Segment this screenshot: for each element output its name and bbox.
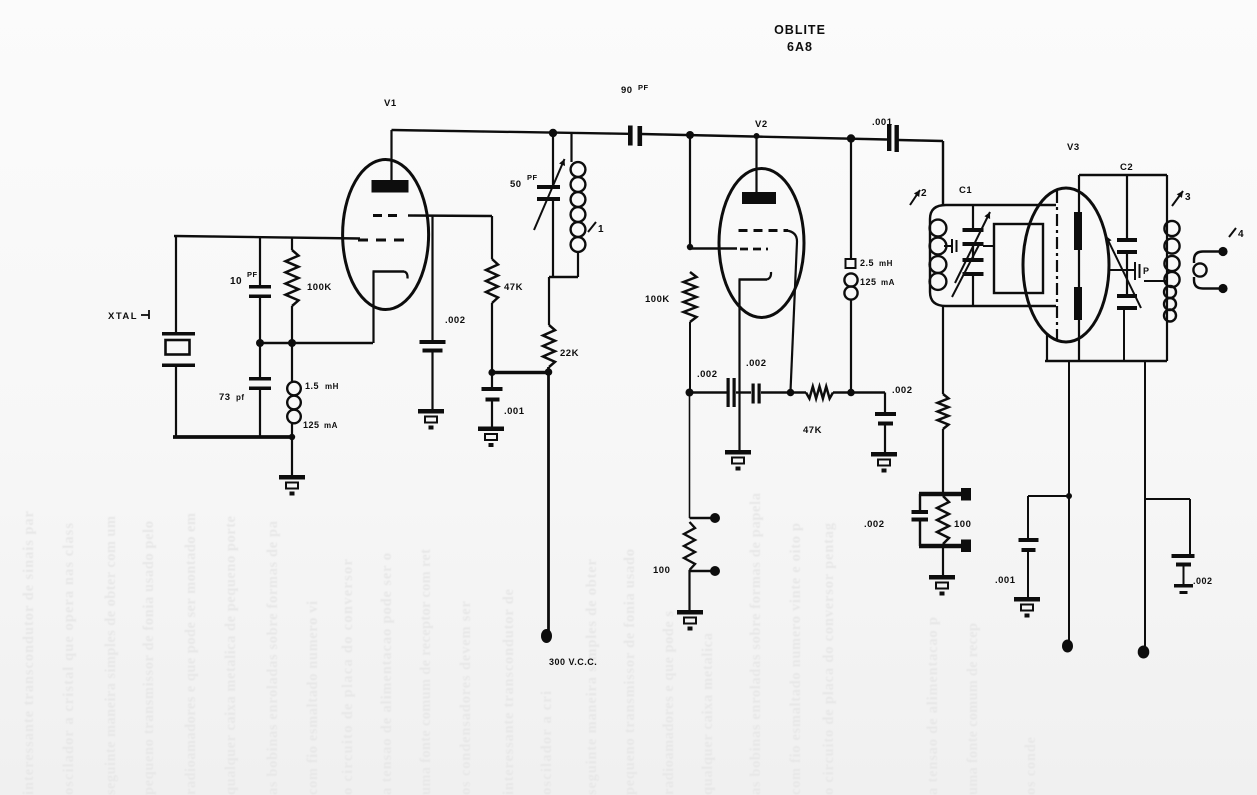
svg-text:radioamadores e que pode s: radioamadores e que pode s [661, 610, 677, 795]
node: junction 10pF/73pF [256, 339, 264, 347]
wire: branch to .001 [1028, 495, 1069, 497]
svg-text:125: 125 [303, 420, 320, 430]
tap lead [690, 570, 712, 573]
svg-text:interessante transcondutor de: interessante transcondutor de sinais par [21, 510, 37, 795]
capacitor .002 plate decoupling [884, 393, 886, 413]
svg-text:mH: mH [879, 259, 893, 268]
node: junction screen return [787, 389, 795, 397]
capacitor .002 output bypass [1172, 554, 1195, 558]
wire: bus continues to V2 / choke / .001 [641, 134, 887, 140]
decoupling network: top bar with terminal [919, 492, 963, 497]
node: junction [1066, 493, 1072, 499]
wire: top-left horizontal from crystal to V1 grid [174, 236, 360, 239]
svg-text:mA: mA [881, 278, 895, 287]
tube V1 envelope [343, 160, 429, 310]
svg-text:V2: V2 [755, 119, 768, 130]
svg-text:300 V.C.C.: 300 V.C.C. [549, 657, 597, 667]
wire [761, 391, 806, 393]
wire: varcap to shield box [983, 245, 994, 247]
capacitor 73 pF [259, 343, 261, 377]
resistor 100K grid leak V1 [291, 238, 293, 250]
wire: tank bottom [549, 276, 578, 278]
svg-text:XTAL: XTAL [108, 311, 138, 322]
capacitor .001 plate coupling [887, 124, 891, 151]
svg-text:.001: .001 [504, 406, 525, 417]
node: junction grid/100K [687, 244, 693, 250]
svg-text:C1: C1 [959, 185, 972, 196]
label L2 arrow [910, 190, 920, 205]
node: bottom wire / ground junction [289, 434, 295, 440]
V1 plate [372, 180, 409, 193]
node: junction choke column [847, 134, 855, 142]
inductor L3 primary loops [1164, 221, 1179, 236]
terminal [1138, 646, 1150, 659]
capacitor .002 screen bypass V1 [431, 216, 433, 340]
shield box inside can [994, 224, 1043, 293]
terminal 300 V.C.C. supply [541, 629, 552, 643]
V2 control grid dashes [740, 248, 768, 251]
svg-text:10: 10 [230, 276, 242, 287]
wire: B+ feed line [547, 367, 550, 632]
svg-text:50: 50 [510, 179, 522, 190]
svg-text:interessante transcondutor de: interessante transcondutor de [501, 588, 517, 795]
V1 screen lead to right [408, 214, 492, 217]
V1 control grid (dashed) [358, 239, 406, 242]
svg-text:qualquer caixa metalica: qualquer caixa metalica [700, 632, 716, 795]
ground (V2 cathode) [738, 393, 740, 452]
svg-text:22K: 22K [560, 348, 579, 359]
wire: bus corner down to transformer can [898, 140, 943, 141]
svg-text:mH: mH [325, 382, 339, 391]
svg-text:pequeno transmissor de fonia u: pequeno transmissor de fonia usado [622, 548, 638, 795]
wire: bias divider feed (thin) [689, 393, 691, 519]
svg-text:oscilador a cri: oscilador a cri [539, 690, 555, 795]
variable capacitor C1a [972, 205, 974, 228]
wire: V3 cathode return down [1068, 361, 1070, 641]
wire: 47K bottom to 22K bottom [492, 371, 549, 374]
V3 internal shield dash-dot [1056, 191, 1058, 342]
node: junction at 100K bottom [686, 389, 694, 397]
resistor 22K [548, 277, 550, 325]
wire: bottom return wire of oscillator loop [173, 435, 294, 439]
svg-text:C2: C2 [1120, 162, 1133, 173]
svg-text:1: 1 [598, 224, 604, 235]
V3 plate bar upper [1074, 212, 1082, 250]
V2 plate [742, 192, 776, 204]
svg-text:V3: V3 [1067, 142, 1080, 153]
tube V3 envelope [1023, 188, 1109, 342]
svg-text:100K: 100K [645, 294, 670, 305]
svg-text:90: 90 [621, 85, 633, 96]
wire: V2 grid column from bus [689, 135, 691, 247]
trimmer padder symbol [944, 245, 952, 247]
ground (screen bypass) [478, 427, 504, 448]
svg-text:radioamadores e que pode ser m: radioamadores e que pode ser montado em [183, 512, 199, 795]
label L3 arrow [1172, 191, 1183, 206]
V2 cathode [739, 278, 768, 281]
svg-text:P: P [1143, 266, 1150, 276]
svg-text:.002: .002 [445, 315, 466, 326]
capacitor .002 (network left leg) [919, 494, 921, 510]
svg-text:seguinte maneira simples de ob: seguinte maneira simples de obter com um [103, 515, 119, 795]
wire: branch to .002 [1145, 498, 1190, 500]
svg-text:125: 125 [860, 277, 877, 287]
svg-text:.001: .001 [872, 117, 893, 128]
variable capacitor C2a [1126, 175, 1128, 238]
V2 screen grid dashed with plate-side return [739, 229, 789, 232]
ground (small) [1174, 584, 1193, 588]
wire: V2 grid lead [690, 247, 737, 249]
svg-text:PF: PF [638, 83, 649, 92]
svg-text:os condensadores devem ser: os condensadores devem ser [458, 600, 474, 795]
V1 screen grid (dashed) [373, 214, 398, 217]
svg-text:47K: 47K [504, 282, 523, 293]
variable capacitor 50 PF tank [552, 133, 554, 185]
capacitor 90 PF coupling [628, 126, 633, 146]
wire [833, 391, 885, 393]
wire: can return column [942, 306, 944, 394]
capacitor 10 pF (feedback) [259, 238, 261, 285]
svg-text:3: 3 [1185, 192, 1191, 203]
node: junction varcap column [549, 129, 557, 137]
svg-text:2: 2 [921, 188, 927, 199]
inductor L3 secondary loops [1164, 286, 1176, 298]
wire: plate bus V1 to coupling caps [392, 130, 629, 134]
wire [736, 391, 751, 393]
node: junction V2 grid column [686, 131, 694, 139]
capacitor .002 grid series [727, 378, 730, 407]
svg-text:4: 4 [1238, 229, 1244, 240]
capacitor C2 box outline [1078, 175, 1080, 361]
svg-text:.002: .002 [697, 369, 718, 380]
crystal XTAL Y1 [175, 236, 177, 333]
svg-text:100K: 100K [307, 282, 332, 293]
svg-text:100: 100 [653, 565, 670, 576]
trimmer arrows [955, 212, 990, 283]
svg-text:PF: PF [527, 173, 538, 182]
svg-text:.002: .002 [864, 519, 885, 530]
svg-text:PF: PF [247, 270, 258, 279]
ground (network) [942, 546, 944, 576]
resistor 100 (can return) [938, 394, 949, 429]
terminal (output/filament) [1062, 640, 1073, 653]
svg-text:os conde: os conde [1023, 736, 1039, 795]
svg-text:1.5: 1.5 [305, 381, 319, 391]
svg-text:mA: mA [324, 421, 338, 430]
resistor 47K screen dropping [491, 216, 493, 259]
capacitor .002 cathode series [752, 384, 755, 404]
svg-text:a tensao de alimentacao p: a tensao de alimentacao p [925, 616, 941, 795]
inductor L2 primary loops [930, 220, 947, 237]
svg-text:pequeno transmissor de fonia u: pequeno transmissor de fonia usado pelo [141, 520, 157, 795]
svg-text:o circuito de placa do convers: o circuito de placa do conversor pentag [821, 522, 837, 795]
node: junction at supply line [545, 368, 553, 376]
svg-text:.001: .001 [995, 575, 1016, 586]
svg-text:47K: 47K [803, 425, 822, 436]
node: junction 100K/choke [288, 339, 296, 347]
ground (oscillator return) [291, 437, 293, 476]
svg-text:uma fonte comum de recep: uma fonte comum de recep [965, 622, 981, 795]
node: junction choke bottom [847, 389, 855, 397]
svg-text:.002: .002 [746, 358, 767, 369]
svg-text:.002: .002 [892, 385, 913, 396]
V1 cathode [373, 270, 405, 273]
svg-text:2.5: 2.5 [860, 258, 874, 268]
capacitor .001 bypass [1019, 538, 1039, 542]
faint reverse-page bleed-through text (decorative background) [21, 492, 1039, 795]
V3 cathode bar lower [1074, 287, 1082, 320]
wire: V2 cathode/grid return bus [690, 391, 727, 393]
resistor 47K horizontal [806, 387, 833, 399]
wire: plate to trimmer [1110, 269, 1134, 271]
tube V2 envelope [719, 169, 804, 318]
svg-text:oscilador a cristal que opera: oscilador a cristal que opera nas class [61, 522, 77, 795]
svg-text:a tensao de alimentacao pode s: a tensao de alimentacao pode ser o [379, 552, 395, 795]
resistor 100 tapped (bias divider) [690, 517, 712, 520]
ground [871, 452, 897, 473]
svg-text:o circuito de placa do convers: o circuito de placa do conversor [340, 558, 356, 795]
svg-text:com fio esmaltado numero vinte: com fio esmaltado numero vinte e oito p [788, 522, 804, 795]
V1 plate lead [390, 130, 392, 181]
V2 plate lead [755, 136, 757, 192]
ground (bias divider) [688, 570, 690, 611]
resistor 100 (network) [937, 496, 949, 544]
inductor L4 link coil [1194, 252, 1223, 264]
network bottom bar with terminal [919, 544, 963, 549]
svg-text:as bobinas enroladas sobre for: as bobinas enroladas sobre formas de pap… [748, 492, 764, 795]
resistor 100K V2 grid leak [684, 272, 697, 322]
svg-text:uma fonte comum de receptor co: uma fonte comum de receptor com ret [418, 548, 434, 795]
node: junction V2 plate lead [754, 133, 760, 139]
RF choke 2.5mH 125mA [850, 139, 852, 260]
capacitor .001 screen supply bypass [491, 371, 493, 387]
svg-text:pf: pf [236, 393, 245, 402]
svg-text:V1: V1 [384, 98, 397, 109]
RF choke 1.5mH / 125mA cathode [291, 343, 293, 382]
svg-text:as bobinas enroladas sobre for: as bobinas enroladas sobre formas de pa [265, 520, 281, 795]
inductor L1 tank coil [570, 133, 572, 162]
svg-text:73: 73 [219, 392, 231, 403]
svg-text:100: 100 [954, 519, 971, 530]
label L4 [1229, 228, 1236, 237]
wire: cathode bus (mid wire) [258, 342, 373, 344]
wire: trimmer to wall [1144, 280, 1167, 282]
svg-text:seguinte maneira simples de ob: seguinte maneira simples de obter [584, 558, 600, 795]
ground (V1 screen bypass) [418, 409, 444, 430]
ground [1014, 597, 1040, 618]
terminal dots L4 [1218, 247, 1227, 256]
wire: L3 secondary return down [1144, 361, 1146, 647]
variable capacitor C2b [1126, 254, 1128, 294]
V3 bottom lead [1046, 334, 1048, 361]
svg-text:.002: .002 [1193, 576, 1213, 586]
svg-text:6A8: 6A8 [787, 40, 813, 54]
trimmer P [1134, 262, 1136, 280]
IF transformer can C1 outline [930, 205, 1056, 306]
variable capacitor C1b [972, 246, 974, 258]
svg-text:OBLITE: OBLITE [774, 23, 826, 37]
svg-text:qualquer caixa metalica de peq: qualquer caixa metalica de pequeno porte [223, 515, 239, 795]
svg-text:com fio esmaltado numero vi: com fio esmaltado numero vi [305, 600, 321, 795]
label L1 [588, 222, 596, 232]
